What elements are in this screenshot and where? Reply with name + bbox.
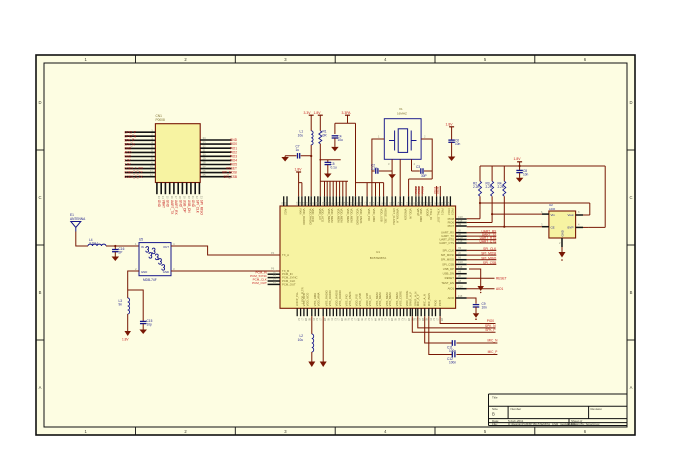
balun U5 pin numbers — [135, 242, 175, 271]
svg-text:GND: GND — [179, 200, 183, 208]
svg-text:VDD_MEM: VDD_MEM — [340, 209, 344, 224]
capacitor C7 label — [296, 145, 300, 153]
svg-text:Revision: Revision — [591, 407, 603, 411]
svg-text:VDD_PIO: VDD_PIO — [367, 209, 371, 222]
capacitor C12 label — [447, 357, 456, 364]
power 1.8V arrow below L3 — [124, 331, 131, 336]
svg-text:VDD_AMA: VDD_AMA — [317, 293, 321, 307]
svg-text:GND: GND — [163, 270, 169, 274]
inductor L2 — [312, 334, 314, 352]
capacitor C5 label — [331, 162, 337, 170]
svg-text:VSS_USB: VSS_USB — [358, 293, 362, 306]
svg-text:3.3PA: 3.3PA — [342, 111, 352, 115]
svg-text:VSS_MEM: VSS_MEM — [388, 292, 392, 306]
svg-text:U1: U1 — [376, 250, 380, 254]
wire 1.8V rail down to R1 — [319, 115, 321, 196]
LDO U2 pin names — [551, 213, 574, 236]
svg-text:GND: GND — [191, 200, 195, 208]
svg-text:SPI_MISO: SPI_MISO — [481, 256, 497, 260]
capacitor C9 label — [482, 302, 488, 310]
ground for C6 — [448, 157, 456, 162]
svg-text:IN: IN — [141, 245, 144, 249]
wire PIO0 row — [440, 316, 495, 323]
svg-text:PIO1: PIO1 — [440, 209, 444, 216]
svg-text:2P: 2P — [119, 251, 123, 255]
wire USB_DP to arrow — [469, 269, 481, 286]
wire bus 3.3PA to pins — [356, 183, 384, 197]
ground for C16 — [112, 257, 120, 262]
svg-text:SPKR_A_P: SPKR_A_P — [408, 292, 412, 307]
svg-text:VDD_RADIO: VDD_RADIO — [356, 209, 360, 226]
svg-text:1.8V: 1.8V — [122, 338, 129, 342]
capacitor C3 row — [412, 170, 433, 172]
wire 1.8V to C6 — [451, 127, 453, 140]
svg-text:VREGIN_H: VREGIN_H — [396, 209, 400, 223]
svg-text:UART_RX: UART_RX — [174, 200, 178, 216]
wire R3 to Vin — [467, 196, 542, 222]
capacitor C3 — [421, 168, 423, 174]
balun U5 windings — [146, 247, 165, 271]
wire 1.8V rail right — [480, 166, 605, 227]
IC U1 right pins — [439, 216, 466, 300]
power bar 3.3PA — [345, 114, 350, 116]
svg-text:UART_TX: UART_TX — [170, 200, 174, 215]
ground for C7 — [284, 155, 287, 157]
svg-text:MIC_N: MIC_N — [487, 339, 498, 343]
svg-text:B: B — [630, 290, 633, 295]
LDO U2 pin stubs — [542, 214, 583, 247]
capacitor C4 label — [338, 135, 344, 143]
svg-text:10n: 10n — [455, 142, 461, 146]
svg-text:C: C — [629, 195, 632, 200]
svg-text:PIO2: PIO2 — [447, 209, 451, 216]
svg-text:VDD_VCO: VDD_VCO — [311, 209, 315, 223]
capacitor C16 label — [119, 247, 125, 255]
connector CN1 bottom pins — [157, 183, 204, 216]
svg-text:VSS_LO: VSS_LO — [368, 294, 372, 306]
wire crystal bottom pins — [392, 159, 411, 196]
connector CN1 body — [155, 124, 200, 183]
svg-text:AIO2: AIO2 — [284, 209, 288, 216]
capacitor C3 label — [416, 165, 427, 178]
svg-text:SPI_CLK: SPI_CLK — [442, 248, 454, 252]
connector CN1 right pins — [200, 136, 237, 179]
junction at C16 — [114, 245, 116, 247]
svg-text:VDD_USB: VDD_USB — [380, 209, 384, 222]
svg-text:B: B — [39, 290, 42, 295]
border row ticks right — [627, 150, 635, 340]
svg-text:VREGEN: VREGEN — [404, 209, 408, 221]
svg-text:1.8V: 1.8V — [295, 168, 303, 172]
resistor R2 — [479, 181, 482, 196]
capacitor C10 — [140, 321, 147, 323]
svg-text:1.8V: 1.8V — [314, 111, 322, 115]
wire 3.3V rail down — [310, 115, 312, 196]
LDO U2 pin numbers — [541, 210, 580, 245]
svg-text:VBAT: VBAT — [162, 200, 166, 208]
row letters left — [38, 100, 41, 390]
svg-text:UART_CTS: UART_CTS — [439, 241, 454, 245]
svg-text:PCM_OUT: PCM_OUT — [282, 282, 296, 286]
svg-text:VDD_AMA: VDD_AMA — [419, 209, 423, 223]
resistor R4 label — [498, 182, 505, 190]
svg-text:VDD_VCO: VDD_VCO — [320, 209, 324, 223]
svg-text:30P: 30P — [421, 174, 427, 178]
inductor L2 label — [298, 334, 304, 342]
svg-text:VDD_RADIO: VDD_RADIO — [302, 209, 306, 226]
capacitor C8 — [519, 166, 521, 170]
column numbers bottom — [85, 429, 587, 434]
ground for LDO — [559, 252, 566, 258]
junction R3 wire — [491, 213, 493, 215]
svg-text:GND: GND — [166, 200, 170, 208]
ground for C4 — [331, 147, 339, 152]
power bar 3.3V — [309, 114, 314, 116]
svg-text:1u: 1u — [296, 148, 300, 152]
svg-text:LOOP_PLL: LOOP_PLL — [295, 291, 299, 306]
svg-text:CE: CE — [551, 226, 555, 230]
svg-text:10n: 10n — [523, 172, 529, 176]
svg-text:GND: GND — [157, 200, 161, 208]
capacitor C10 label — [147, 319, 153, 327]
wire C7 row — [286, 155, 311, 157]
svg-text:1.8V: 1.8V — [514, 157, 522, 161]
net labels SPI — [467, 247, 497, 265]
svg-text:VSS_CORE: VSS_CORE — [398, 291, 402, 306]
capacitor C6 — [448, 140, 455, 142]
svg-text:MIC_BIAS: MIC_BIAS — [427, 293, 431, 306]
svg-text:USB_DN: USB_DN — [187, 200, 191, 214]
svg-text:LDO: LDO — [549, 207, 556, 211]
svg-text:100n: 100n — [449, 361, 456, 365]
svg-text:XTAL_OUT: XTAL_OUT — [437, 209, 441, 224]
power bar right rail — [517, 161, 522, 163]
svg-text:10n: 10n — [482, 306, 488, 310]
svg-text:Title: Title — [492, 395, 498, 399]
svg-text:P4: P4 — [271, 251, 275, 255]
svg-text:MIC_A_P: MIC_A_P — [416, 294, 420, 306]
resistor R1 label — [323, 130, 328, 138]
inductor L4 — [88, 244, 106, 246]
crystal X1 module box — [384, 119, 421, 160]
svg-text:C18: C18 — [458, 286, 463, 289]
inductor L3 label — [119, 299, 123, 307]
LDO U2 designator — [549, 203, 556, 211]
title block labels — [492, 395, 602, 426]
capacitor C2 row — [372, 170, 392, 172]
connector CN1 designator — [156, 114, 165, 122]
svg-text:SPK_N: SPK_N — [485, 324, 496, 328]
svg-text:D:\Design\PCB\BT\BC57E687A_CSR: D:\Design\PCB\BT\BC57E687A_CSR_module.dd… — [508, 422, 576, 426]
power arrow below USB — [477, 286, 484, 291]
svg-text:U5: U5 — [139, 238, 143, 242]
svg-text:F18: F18 — [458, 295, 463, 298]
inductor L3 — [128, 298, 130, 314]
svg-text:P0008: P0008 — [156, 118, 165, 122]
svg-text:MODE_SEL: MODE_SEL — [384, 209, 388, 225]
svg-text:VDD_MEM: VDD_MEM — [350, 209, 354, 224]
wire 1.8V bar to rail — [519, 162, 521, 166]
IC U1 top pins — [281, 196, 454, 225]
svg-text:F18: F18 — [458, 240, 463, 243]
svg-text:12: 12 — [150, 173, 154, 177]
svg-text:VDD_MEM: VDD_MEM — [330, 209, 334, 224]
resistor R4 — [503, 181, 506, 196]
capacitor C8 label — [523, 169, 529, 177]
wire antenna to L4 — [76, 232, 88, 247]
wire RESET — [467, 277, 495, 279]
IC U1 designator and part — [370, 250, 387, 260]
svg-text:3.3P: 3.3P — [371, 167, 378, 171]
svg-text:TEST_EN: TEST_EN — [441, 281, 454, 285]
svg-text:PIO0: PIO0 — [487, 319, 494, 323]
wire MIC_P row — [429, 316, 498, 354]
wire VDD pin down — [322, 316, 324, 361]
power bar 1.8V mid — [296, 171, 301, 173]
svg-text:GND: GND — [561, 230, 565, 236]
power arrow below L2 — [308, 362, 315, 368]
crystal X1 designator — [397, 107, 407, 116]
border row ticks left — [36, 150, 44, 340]
svg-text:F18: F18 — [458, 266, 463, 269]
column numbers top — [85, 57, 587, 62]
svg-text:SPI_CLK: SPI_CLK — [196, 200, 200, 214]
svg-text:PIO5: PIO5 — [438, 299, 442, 306]
svg-text:VSS_RADIO: VSS_RADIO — [338, 289, 342, 306]
svg-text:A: A — [630, 385, 633, 390]
svg-text:BYP: BYP — [567, 226, 573, 230]
ground for C8 — [516, 178, 524, 183]
sheet inner border — [44, 63, 627, 427]
title block frame — [489, 394, 628, 426]
IC U1 left pins TX_A TX_B — [282, 253, 289, 273]
svg-text:Number: Number — [511, 407, 522, 411]
svg-text:PIO5: PIO5 — [436, 186, 440, 193]
connector CN1 left pins — [124, 128, 155, 178]
inductor L1 label — [298, 130, 304, 138]
svg-text:XTAL_IN: XTAL_IN — [429, 209, 433, 220]
svg-text:VDD_AMA: VDD_AMA — [372, 209, 376, 223]
svg-text:PIO0: PIO0 — [434, 299, 438, 306]
net labels PIO top pins — [414, 186, 440, 193]
junction R2 wire — [479, 202, 481, 204]
wire 3.3PA rail — [335, 115, 356, 196]
svg-text:RESET: RESET — [445, 276, 455, 280]
capacitor C6 label — [455, 139, 461, 147]
svg-text:0.1u: 0.1u — [331, 166, 337, 170]
svg-text:Vout: Vout — [567, 213, 573, 217]
svg-text:B: B — [492, 412, 495, 417]
svg-text:10u: 10u — [298, 134, 304, 138]
svg-text:25: 25 — [203, 173, 207, 177]
svg-text:SPI_CSB: SPI_CSB — [224, 175, 237, 179]
capacitor C11 — [452, 340, 455, 346]
power bar 1.8V crystal — [449, 126, 454, 128]
svg-text:VSS_RADIO: VSS_RADIO — [328, 289, 332, 306]
wire SPK_P row — [412, 316, 495, 332]
svg-text:File:: File: — [492, 422, 498, 426]
svg-text:PIO3: PIO3 — [420, 186, 424, 193]
capacitor C12 — [452, 352, 455, 358]
wire crystal pin2 — [409, 139, 433, 196]
schematic sheet — [36, 55, 635, 435]
wire L3 to 1.8V — [127, 314, 129, 331]
svg-text:BC57E687A: BC57E687A — [370, 256, 387, 260]
svg-text:COEX_3_TX: COEX_3_TX — [124, 175, 143, 179]
svg-text:SPK_P: SPK_P — [485, 328, 495, 332]
junction rail C8 — [519, 165, 521, 167]
ground for C10 — [139, 330, 147, 335]
svg-text:1.8V: 1.8V — [446, 122, 454, 126]
power bar 1.8V — [318, 114, 323, 116]
resistor R3 label — [486, 182, 493, 190]
wire SPK_N row — [418, 316, 496, 328]
capacitor C7 — [298, 153, 300, 159]
svg-text:AIO1: AIO1 — [448, 287, 455, 291]
svg-text:TX_A: TX_A — [282, 253, 289, 257]
svg-text:USB_DN: USB_DN — [443, 272, 454, 276]
border column ticks top — [136, 55, 535, 63]
wire AIO1 — [467, 288, 495, 290]
svg-text:D: D — [38, 100, 41, 105]
inductor L4 label — [89, 238, 98, 246]
capacitor C4 — [332, 136, 339, 138]
svg-text:SPI_CSB: SPI_CSB — [483, 261, 496, 265]
wire pin to L2 — [311, 316, 313, 334]
svg-text:Vin: Vin — [551, 213, 556, 217]
svg-text:3.3V: 3.3V — [304, 111, 312, 115]
junction C7-rail — [310, 155, 312, 157]
wire AIO0 to C9 — [467, 298, 476, 304]
svg-text:SPI_MISO: SPI_MISO — [441, 258, 455, 262]
svg-text:16MHZ: 16MHZ — [397, 112, 407, 116]
wire 1.8V bus above IC — [320, 160, 348, 182]
antenna symbol — [71, 222, 81, 232]
capacitor C2 — [376, 168, 378, 174]
svg-text:A: A — [39, 385, 42, 390]
border column ticks bottom — [136, 427, 535, 435]
svg-text:RST_FLASH: RST_FLASH — [392, 209, 396, 225]
capacitor C9 — [473, 305, 480, 307]
svg-text:MIC_P: MIC_P — [488, 350, 498, 354]
capacitor C11 label — [447, 346, 456, 353]
wires bus to top pins — [325, 181, 347, 196]
net labels UART — [467, 229, 497, 243]
wire R2 to PIO8 and Vout loop — [467, 196, 590, 219]
crystal X1 symbol — [389, 129, 417, 153]
ground arrow for C9 — [473, 313, 480, 318]
svg-text:GND: GND — [141, 270, 147, 274]
svg-text:AIO1: AIO1 — [496, 287, 503, 291]
svg-text:Size: Size — [492, 407, 498, 411]
IC U1 bottom pins — [295, 289, 442, 322]
svg-text:VSS_PADS: VSS_PADS — [348, 292, 352, 307]
capacitor C5 — [325, 162, 332, 164]
antenna E1 label — [70, 213, 86, 221]
wire 1.8V mid down — [299, 172, 302, 196]
power arrow below VDD pin — [320, 362, 327, 368]
svg-text:PIO7: PIO7 — [448, 224, 455, 228]
svg-text:SPI_MOSI: SPI_MOSI — [481, 252, 496, 256]
svg-text:OUT: OUT — [163, 245, 169, 249]
svg-text:VDD_VCO: VDD_VCO — [305, 292, 309, 306]
wire stubs top pins right — [416, 186, 440, 196]
svg-text:SPI_MOSI: SPI_MOSI — [441, 253, 454, 257]
svg-text:Drawn By: Smart.Fox: Drawn By: Smart.Fox — [571, 422, 600, 426]
wire balun GND2 to L3 and C10 — [128, 271, 144, 321]
IC U1 left pins PCM — [250, 271, 297, 287]
svg-text:UART_CTS: UART_CTS — [480, 240, 497, 244]
row letters right — [629, 100, 632, 390]
svg-text:RESET: RESET — [496, 276, 507, 280]
IC U1 body — [280, 206, 456, 308]
svg-text:10u: 10u — [338, 138, 344, 142]
wire balun OUT to TX_A — [171, 246, 280, 255]
wire crystal pin1 — [372, 139, 384, 196]
crystal X1 pin numbers — [378, 135, 426, 167]
svg-text:C: C — [38, 195, 41, 200]
svg-text:VDD_MEM: VDD_MEM — [346, 209, 350, 224]
svg-text:D: D — [629, 100, 632, 105]
svg-text:MDB-74F: MDB-74F — [143, 278, 157, 282]
svg-text:AIO0: AIO0 — [448, 296, 455, 300]
wire MIC_N row — [425, 316, 498, 343]
svg-text:SPI_MISO: SPI_MISO — [200, 200, 204, 216]
LDO U2 body — [549, 211, 576, 238]
balun U5 pin names — [141, 245, 169, 274]
ground for C5 — [324, 174, 332, 179]
svg-text:ANTENNA: ANTENNA — [70, 217, 86, 221]
svg-text:C18: C18 — [458, 261, 463, 264]
svg-text:SPI_CLK: SPI_CLK — [483, 247, 497, 251]
svg-text:VSS_MEM: VSS_MEM — [378, 292, 382, 306]
capacitor C16 — [114, 246, 116, 249]
svg-text:PIO3: PIO3 — [450, 209, 454, 216]
svg-text:10u: 10u — [298, 338, 304, 342]
svg-text:10p: 10p — [147, 323, 153, 327]
wire balun GND3 to TX_B — [171, 270, 280, 272]
wire L4 to balun — [106, 245, 139, 247]
resistor R2 label — [473, 182, 480, 190]
wire R4 to PIO7 CE — [467, 196, 542, 227]
ground below crystal — [391, 171, 393, 174]
svg-text:USB_DP: USB_DP — [443, 267, 454, 271]
svg-text:0R: 0R — [323, 134, 328, 138]
inductor L1 — [311, 131, 313, 145]
wire BYP — [583, 226, 589, 228]
junction R4 wire — [503, 226, 505, 228]
balun U5 body — [139, 243, 171, 276]
svg-text:PCM_OUT: PCM_OUT — [252, 281, 267, 285]
svg-text:VDD_PADS: VDD_PADS — [359, 209, 363, 224]
wire L2 down — [311, 352, 313, 362]
svg-text:C3: C3 — [416, 165, 420, 169]
resistor R1 — [319, 131, 322, 144]
svg-text:VDD_IN: VDD_IN — [409, 209, 413, 219]
svg-text:9n: 9n — [119, 303, 123, 307]
svg-text:X1: X1 — [399, 107, 403, 111]
capacitor C2 label — [371, 164, 378, 172]
svg-text:USB_DP: USB_DP — [183, 200, 187, 213]
wire LDO GND — [561, 247, 563, 252]
junction bus — [319, 159, 321, 161]
svg-text:SPI_CSB: SPI_CSB — [442, 262, 454, 266]
resistor R3 — [491, 181, 494, 196]
